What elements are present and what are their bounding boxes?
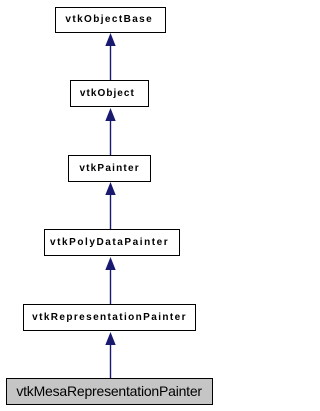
node vtkObject: [70, 80, 149, 107]
node vtkObjectBase: [55, 7, 166, 33]
arrow vtkMesaRepresentationPainter to vtkRepresentationPainter: [99, 331, 121, 379]
node vtkPolyDataPainter: [44, 229, 180, 256]
arrow vtkPainter to vtkObject: [99, 107, 121, 155]
arrow vtkRepresentationPainter to vtkPolyDataPainter: [99, 256, 121, 304]
node vtkRepresentationPainter: [23, 304, 196, 332]
arrow vtkObject to vtkObjectBase: [99, 32, 121, 80]
node vtkPainter: [68, 155, 151, 182]
node vtkMesaRepresentationPainter (current class, grey fill): [6, 378, 213, 405]
arrow vtkPolyDataPainter to vtkPainter: [99, 181, 121, 229]
